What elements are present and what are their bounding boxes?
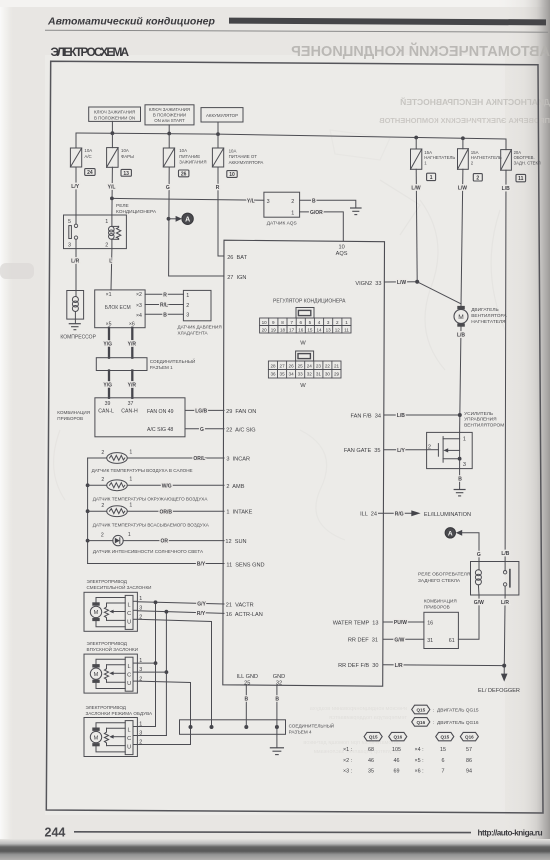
junction dot on Y/L at relay xyxy=(110,197,114,201)
svg-text:24: 24 xyxy=(307,363,313,368)
junction dot sun sensor on bus xyxy=(86,539,90,543)
actuator A3 outer box xyxy=(84,718,137,757)
svg-text:L: L xyxy=(128,602,131,608)
actuator A2 pin 2 xyxy=(133,676,142,682)
svg-text:10A: 10A xyxy=(121,148,129,153)
junction dot FAN F/B tap xyxy=(458,413,462,417)
ECU pin ILL GND 25 xyxy=(237,674,259,686)
wire OR/L: in-car sensor to ECU 3 INCAR xyxy=(127,457,224,459)
svg-text:×5 :: ×5 : xyxy=(415,758,424,764)
svg-text:21: 21 xyxy=(334,363,340,368)
junction dot ambient sensor on bus xyxy=(86,483,90,487)
svg-text:13: 13 xyxy=(123,171,129,177)
svg-text:FAN F/B 34: FAN F/B 34 xyxy=(351,413,381,419)
svg-text:15: 15 xyxy=(440,747,446,753)
svg-text:U: U xyxy=(127,681,131,687)
svg-text:FAN GATE 35: FAN GATE 35 xyxy=(344,448,381,454)
svg-text:×3: ×3 xyxy=(136,303,142,309)
svg-text:3: 3 xyxy=(68,243,71,249)
svg-text:LG/B: LG/B xyxy=(195,409,207,415)
actuator A3 motor xyxy=(90,728,101,747)
svg-text:68: 68 xyxy=(368,747,374,753)
svg-text:L/Y: L/Y xyxy=(71,184,79,190)
svg-text:20: 20 xyxy=(262,328,268,333)
wire R/L: ECM x3 to pressure sensor pin 2 xyxy=(145,304,183,306)
table header hexagon QG16 left xyxy=(389,732,407,740)
svg-text:2: 2 xyxy=(105,243,108,249)
svg-text:GND: GND xyxy=(273,674,285,680)
svg-text:12: 12 xyxy=(335,328,341,333)
junction dot at MOSFET source xyxy=(458,457,462,461)
wire: box1 drop xyxy=(111,121,113,133)
svg-text:ХЛАДАГЕНТА: ХЛАДАГЕНТА xyxy=(178,330,209,335)
svg-text:ЗАДНЕГО СТЕКЛА: ЗАДНЕГО СТЕКЛА xyxy=(418,578,461,584)
svg-text:105: 105 xyxy=(392,747,401,753)
fuse F10 value label xyxy=(229,149,264,165)
ground symbol (compressor) xyxy=(69,324,80,330)
svg-text:46: 46 xyxy=(394,758,400,764)
mode door actuator A3 xyxy=(84,718,142,757)
svg-text:B: B xyxy=(275,697,279,703)
wire: A2 pin2 right and down through junction connector 4 to A3 pin2 xyxy=(137,681,190,744)
svg-text:5: 5 xyxy=(309,320,312,325)
left page edge highlight xyxy=(0,0,14,860)
wire B: AQS pin2 to ground xyxy=(300,200,356,207)
svg-text:ЭЛЕКТРОСХЕМА: ЭЛЕКТРОСХЕМА xyxy=(51,45,130,59)
label: junction connector 4 xyxy=(289,721,334,734)
svg-text:M: M xyxy=(458,314,464,321)
actuator A1 motor xyxy=(90,602,101,621)
svg-text:B: B xyxy=(312,198,316,204)
svg-text:C: C xyxy=(127,736,131,742)
svg-text:W: W xyxy=(300,383,306,389)
svg-text:КОНДИЦИОНЕРА: КОНДИЦИОНЕРА xyxy=(116,209,157,215)
refrigerant pressure sensor box xyxy=(183,290,211,320)
wire L/W: fuse F2 down to blower motor xyxy=(461,169,463,306)
wire L/R: relay pin3 to compressor xyxy=(75,249,77,291)
ECU connector 1 pin numbers row 1 xyxy=(262,320,349,325)
wire PU/W: ECU WATER TEMP 13 to cluster 16 xyxy=(383,621,424,623)
svg-text:35: 35 xyxy=(280,372,286,377)
svg-text:PU/W: PU/W xyxy=(394,620,407,626)
svg-text:15A: 15A xyxy=(471,150,479,155)
svg-text:ПРИБОРОВ: ПРИБОРОВ xyxy=(57,416,83,421)
wire: bus stub to fuse5 xyxy=(415,138,417,150)
svg-text:31: 31 xyxy=(316,372,322,377)
wire L/R: relay switch down to EL/DEFOGGER xyxy=(503,595,506,674)
svg-text:В ПОЛОЖЕНИИ ON: В ПОЛОЖЕНИИ ON xyxy=(94,115,135,120)
actuator A1 wiper arrow xyxy=(109,610,125,614)
arrow into connector A second xyxy=(456,530,463,536)
svg-text:L/B: L/B xyxy=(457,333,465,339)
wire R/Y: actuator pin3 bus to ECU 16 ACTR-LAN xyxy=(137,611,224,614)
ECU pin 10 AQS xyxy=(336,245,348,258)
show-through mirrored big title xyxy=(291,42,550,125)
wire B: ECU ILL GND 25 down to junction connector 4 xyxy=(245,685,247,727)
wire LG/B: cluster FAN ON to ECU 29 FAN ON xyxy=(185,409,224,411)
svg-text:3: 3 xyxy=(463,462,466,468)
svg-text:35: 35 xyxy=(368,769,374,775)
svg-text:FAN ON 49: FAN ON 49 xyxy=(147,409,174,415)
connector number box 2 xyxy=(473,174,482,182)
instrument cluster (left) box xyxy=(95,398,185,437)
wire B/Y: sensor bus to ECU 11 SENS GND xyxy=(88,563,224,565)
svg-text:ПИТАНИЕ: ПИТАНИЕ xyxy=(179,154,200,159)
svg-text:6: 6 xyxy=(300,320,303,325)
wire: compressor to ground xyxy=(74,319,76,323)
svg-text:8: 8 xyxy=(281,320,284,325)
svg-text:U: U xyxy=(127,745,131,751)
svg-text:R/G: R/G xyxy=(395,511,404,517)
wire: G tap to connector A xyxy=(169,218,177,220)
svg-text:3: 3 xyxy=(267,199,270,205)
svg-text:КЛЮЧ ЗАЖИГАНИЯ: КЛЮЧ ЗАЖИГАНИЯ xyxy=(94,109,135,114)
label: refrigerant pressure sensor xyxy=(178,325,222,336)
table row 1 xyxy=(343,747,472,753)
wire: A2 pin1 to bus xyxy=(137,662,155,664)
arrow down to EL/DEFOGGER xyxy=(501,674,508,682)
svg-text:10: 10 xyxy=(229,172,235,178)
bottom book edge band xyxy=(0,839,550,860)
fan amplifier box xyxy=(427,432,473,468)
wire: VIGN2 33 to L/W junction xyxy=(384,281,417,283)
relay switch lead from pin5 xyxy=(75,215,77,224)
svg-text:2: 2 xyxy=(101,450,104,456)
wire G/W: ECU RR DEF 31 to cluster 31 xyxy=(383,638,424,640)
svg-text:КОМБИНАЦИЯ: КОМБИНАЦИЯ xyxy=(424,599,457,604)
junction connector 1 box xyxy=(96,358,147,371)
svg-text:G/W: G/W xyxy=(474,600,484,606)
svg-text:244: 244 xyxy=(45,826,66,840)
compressor clutch coil xyxy=(72,291,78,320)
label: instrument cluster (left) xyxy=(57,410,90,421)
wire: box2 drop xyxy=(168,125,170,134)
actuator A3 LCU box xyxy=(125,721,133,755)
wire: diagonal from L/W junction to blower motor feed xyxy=(417,282,461,304)
svg-text:2: 2 xyxy=(101,477,104,483)
svg-text:29: 29 xyxy=(334,372,340,377)
fuse F24 value label xyxy=(84,148,92,159)
svg-text:86: 86 xyxy=(466,758,472,764)
fuse F2 15A blower 2 xyxy=(458,149,469,170)
svg-text:2: 2 xyxy=(336,320,339,325)
svg-text:OR: OR xyxy=(161,539,169,545)
header dark bar xyxy=(229,18,546,26)
svg-text:32: 32 xyxy=(307,372,313,377)
svg-text:ВПУСКНОЙ ЗАСЛОНКИ: ВПУСКНОЙ ЗАСЛОНКИ xyxy=(87,645,139,652)
junction connector 4 box xyxy=(180,720,286,735)
svg-text:27: 27 xyxy=(280,363,286,368)
svg-text:РЕЛЕ ОБОГРЕВАТЕЛЯ: РЕЛЕ ОБОГРЕВАТЕЛЯ xyxy=(418,572,471,578)
svg-text:2: 2 xyxy=(101,503,104,509)
svg-text:×5: ×5 xyxy=(106,321,112,327)
svg-text:G: G xyxy=(166,185,170,191)
junction dot pin3 bus at A2 xyxy=(165,670,169,674)
ECU pin GND 32 xyxy=(273,674,285,686)
svg-text:11: 11 xyxy=(344,328,349,333)
wire G: fuse F26 down then right to ECU pin 27 IGN xyxy=(169,167,224,276)
svg-text:В ПОЛОЖЕНИИ: В ПОЛОЖЕНИИ xyxy=(153,113,186,118)
svg-text:ДАТЧИК ДАВЛЕНИЯ: ДАТЧИК ДАВЛЕНИЯ xyxy=(178,325,222,330)
junction dot on G wire at connector A tap xyxy=(167,217,171,221)
svg-text:3: 3 xyxy=(186,313,189,319)
svg-text:W: W xyxy=(300,341,306,347)
svg-text:G/Y: G/Y xyxy=(197,602,206,608)
svg-text:A: A xyxy=(185,216,190,223)
svg-text:CAN-H: CAN-H xyxy=(121,409,138,415)
fuse F26 10A ignition feed xyxy=(163,148,174,167)
junction on bus at fuse 15A-1 xyxy=(414,136,418,140)
box: ignition key in ON or START xyxy=(145,105,194,125)
header underline xyxy=(45,30,548,32)
svg-text:РЕГУЛЯТОР КОНДИЦИОНЕРА: РЕГУЛЯТОР КОНДИЦИОНЕРА xyxy=(273,298,346,304)
svg-text:Y/L: Y/L xyxy=(108,184,116,190)
diagram border frame xyxy=(46,61,543,813)
svg-text:A: A xyxy=(448,530,453,537)
sunlight sensor (photodiode) xyxy=(113,535,123,545)
junction dot J4-2 xyxy=(210,725,214,729)
svg-text:RR DEF 31: RR DEF 31 xyxy=(348,638,378,644)
actuator A2 motor xyxy=(90,664,101,683)
actuator A1 position pot xyxy=(104,603,108,620)
svg-text:ЭЛЕКТРОПРИВОД: ЭЛЕКТРОПРИВОД xyxy=(86,705,127,710)
connector number box 1 xyxy=(427,173,436,181)
svg-text:26: 26 xyxy=(181,171,187,177)
svg-text:L/R: L/R xyxy=(71,259,79,265)
rear defogger relay box xyxy=(471,562,519,596)
ECU connector 1 tab xyxy=(296,308,314,319)
svg-text:РАЗЪЕМ 4: РАЗЪЕМ 4 xyxy=(289,730,312,735)
sun sensor left lead xyxy=(88,540,113,542)
svg-text:B: B xyxy=(244,697,248,703)
svg-text:НАГНЕТАТЕЛЬ: НАГНЕТАТЕЛЬ xyxy=(424,155,455,160)
svg-text:30: 30 xyxy=(325,372,331,377)
wire: bus stub to fuse3 xyxy=(168,134,170,149)
svg-text:33: 33 xyxy=(298,372,304,377)
junction dot pin1 bus at A2 xyxy=(154,661,158,665)
svg-text:EL/ DEFOGGER: EL/ DEFOGGER xyxy=(478,688,520,694)
junction on bus at fuse 15A-2 xyxy=(461,136,465,140)
junction dot J4-1 xyxy=(189,725,193,729)
svg-text:26: 26 xyxy=(289,363,295,368)
instrument cluster (right) box xyxy=(424,612,459,648)
actuator A1 pot bottom lead xyxy=(107,619,126,621)
wire OR/B: intake sensor to ECU 1 INTAKE xyxy=(127,510,224,512)
svg-text:×6 :: ×6 : xyxy=(415,769,424,775)
svg-text:Y/G: Y/G xyxy=(103,383,112,389)
wire: bus stub to fuse2 xyxy=(111,133,113,147)
svg-text:L/W: L/W xyxy=(397,280,406,286)
wire: A3 pin1 to bus xyxy=(137,726,155,728)
svg-text:18: 18 xyxy=(280,328,286,333)
svg-text:G/OR: G/OR xyxy=(310,210,323,216)
actuator A2 LCU box xyxy=(125,657,133,691)
svg-text:7: 7 xyxy=(290,320,293,325)
svg-text:OR/B: OR/B xyxy=(160,509,173,515)
table row 3 xyxy=(343,769,472,775)
actuator A2 wiper arrow xyxy=(109,671,125,675)
svg-text:10A: 10A xyxy=(229,149,237,154)
svg-text:СОЕДИНИТЕЛЬНЫЙ: СОЕДИНИТЕЛЬНЫЙ xyxy=(150,357,195,364)
svg-text:U: U xyxy=(127,619,131,625)
junction dot VIGN2 tap xyxy=(415,280,419,284)
svg-text:×1 :: ×1 : xyxy=(343,747,352,753)
svg-text:1: 1 xyxy=(345,320,348,325)
svg-text:L: L xyxy=(109,259,112,265)
svg-text:1 INTAKE: 1 INTAKE xyxy=(226,510,252,516)
svg-text:A/C: A/C xyxy=(84,154,91,159)
label: air mix door actuator xyxy=(87,579,152,590)
relay coil loops xyxy=(109,226,115,239)
svg-text:×4 :: ×4 : xyxy=(415,747,424,753)
label: fan control amplifier xyxy=(464,411,504,429)
svg-text:R: R xyxy=(216,185,220,191)
actuator A1 pin 2 xyxy=(133,615,142,621)
intake door actuator A2 xyxy=(84,654,142,693)
wire: bus stub to fuse6 xyxy=(462,138,464,148)
svg-text:10: 10 xyxy=(338,245,344,251)
ground symbol (junction 4) xyxy=(270,748,283,755)
svg-text:M: M xyxy=(94,672,99,678)
actuator A3 pot bottom lead xyxy=(107,745,126,747)
svg-text:ДВИГАТЕЛЬ: ДВИГАТЕЛЬ xyxy=(471,307,498,313)
svg-text:36: 36 xyxy=(270,372,276,377)
actuator A3 pin 2 xyxy=(133,740,142,746)
svg-text:ДАТЧИК ТЕМПЕРАТУРЫ ОКРУЖАЮЩЕГО: ДАТЧИК ТЕМПЕРАТУРЫ ОКРУЖАЮЩЕГО ВОЗДУХА xyxy=(93,497,209,502)
actuator A1 LCU box xyxy=(125,595,133,629)
actuator A1 pin 3 xyxy=(133,605,142,611)
svg-text:Y/L: Y/L xyxy=(247,198,255,204)
svg-text:13: 13 xyxy=(326,328,332,333)
svg-text:61: 61 xyxy=(449,638,455,644)
connector number box 26 xyxy=(179,170,189,177)
svg-text:ическом кондиционировании возд: ическом кондиционировании воздуха xyxy=(309,706,407,712)
relay coil top bar xyxy=(112,225,119,227)
svg-text:21 VACTR: 21 VACTR xyxy=(226,603,254,609)
ECU connector 2 pin numbers row 2 xyxy=(270,372,339,377)
top edge highlight xyxy=(0,0,550,7)
svg-text:L/W: L/W xyxy=(458,186,467,192)
svg-text:37: 37 xyxy=(128,401,134,407)
svg-text:57: 57 xyxy=(466,747,472,753)
junction on bus at box2 xyxy=(167,132,171,136)
wire G/W: relay coil to cluster pin 61 xyxy=(458,595,479,639)
svg-text:31: 31 xyxy=(427,638,433,644)
svg-text:×4: ×4 xyxy=(136,313,142,319)
svg-text:25: 25 xyxy=(298,363,304,368)
svg-text:L/R: L/R xyxy=(395,663,403,669)
svg-text:1: 1 xyxy=(129,503,132,509)
label: intake door actuator xyxy=(87,641,139,652)
svg-text:RR DEF F/B 30: RR DEF F/B 30 xyxy=(338,663,378,669)
svg-text:НАГНЕТАТЕЛЯ: НАГНЕТАТЕЛЯ xyxy=(471,319,506,325)
show-through faint texture blobs xyxy=(54,130,505,540)
MOSFET inside amplifier xyxy=(427,432,460,468)
connector number box 11 xyxy=(516,174,526,182)
svg-text:29 FAN ON: 29 FAN ON xyxy=(226,409,256,415)
svg-text:1: 1 xyxy=(291,210,294,216)
table header hexagon QG15 left xyxy=(364,732,382,740)
svg-text:L: L xyxy=(128,664,131,670)
ground symbol (amplifier) xyxy=(454,490,465,496)
svg-text:24: 24 xyxy=(87,170,93,176)
wire B: ECM x4 to pressure sensor pin 3 xyxy=(145,313,183,315)
svg-text:ДАТЧИК AQS: ДАТЧИК AQS xyxy=(267,220,297,226)
svg-text:39: 39 xyxy=(105,401,111,407)
actuator A3 pot top lead xyxy=(107,727,126,729)
svg-text:Q16: Q16 xyxy=(465,735,474,740)
svg-text:1: 1 xyxy=(430,175,433,181)
junction dot intake sensor on bus xyxy=(86,509,90,513)
svg-text:16: 16 xyxy=(298,328,304,333)
svg-text:19: 19 xyxy=(271,328,277,333)
label: instrument cluster (right) xyxy=(424,599,457,610)
ambient sensor left lead xyxy=(88,484,107,486)
label: A/C relay xyxy=(116,203,157,215)
fuse F26 value label xyxy=(179,148,206,164)
junction dot pin1 bus top xyxy=(154,600,158,604)
connector number box 10 xyxy=(227,171,237,178)
connector A (second) xyxy=(445,528,455,538)
svg-text:L/W: L/W xyxy=(411,186,420,192)
svg-text:Автоматический кондиционер: Автоматический кондиционер xyxy=(47,16,216,28)
svg-text:L/R: L/R xyxy=(501,600,509,606)
wire Y/L branch: relay junction to AQS sensor pin 3 xyxy=(112,198,264,200)
actuator A1 motor leads xyxy=(96,598,125,603)
wire: FAN F/B 34 to L/B junction xyxy=(384,414,460,416)
svg-text:2: 2 xyxy=(476,175,479,181)
svg-text:14: 14 xyxy=(316,328,322,333)
actuator pin1 bus vertical xyxy=(155,602,157,726)
connector number box 24 xyxy=(85,169,95,176)
fuse F1 15A blower 1 xyxy=(411,149,422,169)
actuator A3 position pot xyxy=(104,728,108,745)
svg-text:C: C xyxy=(127,611,131,617)
wire: A1 pin2 right and down to junction connector 4 xyxy=(137,619,211,727)
actuator A1 outer box xyxy=(84,592,137,631)
compressor box xyxy=(67,291,84,320)
connector number box 13 xyxy=(121,169,131,176)
relay coil lead to pin2 xyxy=(111,239,113,248)
svg-text:1: 1 xyxy=(105,219,108,225)
ECU connector 1 pin grid xyxy=(260,318,351,333)
fuse F1 value label xyxy=(424,150,455,166)
svg-text:B: B xyxy=(458,476,462,482)
svg-text:46: 46 xyxy=(368,758,374,764)
fuse F11 value label xyxy=(514,150,541,165)
relay coil bottom bar xyxy=(112,238,119,240)
svg-text:G/W: G/W xyxy=(394,637,404,643)
wire CAN-H thick: junction 1 to cluster pin 37 xyxy=(131,371,133,398)
svg-text:http://auto-kniga.ru: http://auto-kniga.ru xyxy=(478,828,543,837)
svg-text:ПРОВЕРКА ЭЛЕКТРИЧЕСКИХ КОМПОНЕ: ПРОВЕРКА ЭЛЕКТРИЧЕСКИХ КОМПОНЕНТОВ xyxy=(379,116,550,125)
svg-text:РАЗЪЕМ 1: РАЗЪЕМ 1 xyxy=(150,365,173,370)
svg-text:B: B xyxy=(163,312,167,318)
svg-text:ПРИБОРОВ: ПРИБОРОВ xyxy=(424,605,450,610)
svg-text:G: G xyxy=(477,552,481,558)
wire: bus stub to fuse7 xyxy=(505,139,507,150)
svg-text:94: 94 xyxy=(466,769,472,775)
svg-text:КОМБИНАЦИЯ: КОМБИНАЦИЯ xyxy=(57,410,90,415)
fuse F10 10A battery feed xyxy=(212,148,223,167)
svg-text:16: 16 xyxy=(427,621,433,627)
svg-text:C: C xyxy=(127,673,131,679)
in-car temp sensor (thermistor) xyxy=(107,453,128,464)
svg-text:×1: ×1 xyxy=(106,292,112,298)
svg-text:ЗАЖИГАНИЯ: ЗАЖИГАНИЯ xyxy=(179,160,206,165)
svg-text:КОМПРЕССОР: КОМПРЕССОР xyxy=(60,334,96,340)
label: blower fan motor xyxy=(471,307,507,325)
